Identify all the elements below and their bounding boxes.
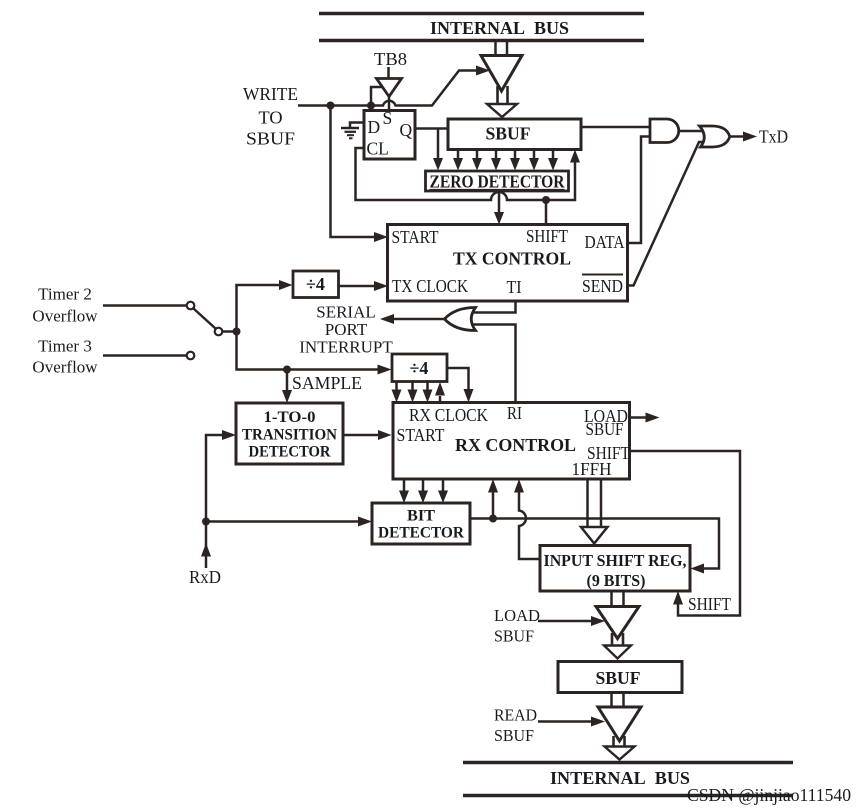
svg-text:TRANSITION: TRANSITION (242, 426, 337, 444)
svg-text:INTERNAL BUS: INTERNAL BUS (430, 18, 569, 38)
svg-text:Timer 2: Timer 2 (38, 285, 92, 304)
svg-text:CSDN @jinjiao111540: CSDN @jinjiao111540 (687, 785, 851, 805)
svg-text:1-TO-0: 1-TO-0 (264, 408, 316, 426)
svg-text:START: START (397, 425, 445, 445)
svg-text:START: START (392, 227, 439, 247)
svg-text:SBUF: SBUF (246, 129, 295, 149)
svg-text:TI: TI (507, 277, 522, 297)
svg-text:(9 BITS): (9 BITS) (587, 571, 646, 590)
svg-text:SBUF: SBUF (494, 726, 534, 745)
svg-text:RxD: RxD (189, 567, 221, 587)
svg-text:SHIFT: SHIFT (688, 594, 731, 614)
svg-text:÷4: ÷4 (410, 358, 429, 378)
svg-text:PORT: PORT (325, 320, 368, 339)
svg-text:SBUF: SBUF (486, 124, 531, 144)
svg-text:SHIFT: SHIFT (526, 226, 568, 246)
svg-text:DATA: DATA (585, 232, 625, 252)
svg-text:SBUF: SBUF (494, 627, 534, 646)
svg-text:Overflow: Overflow (32, 358, 98, 377)
svg-text:RX CONTROL: RX CONTROL (455, 435, 576, 455)
svg-text:LOAD: LOAD (494, 606, 540, 625)
svg-text:Timer 3: Timer 3 (38, 337, 92, 356)
svg-text:ZERO DETECTOR: ZERO DETECTOR (430, 172, 565, 192)
svg-text:DETECTOR: DETECTOR (249, 443, 331, 461)
svg-text:INPUT SHIFT REG,: INPUT SHIFT REG, (544, 551, 687, 570)
svg-text:SERIAL: SERIAL (316, 303, 376, 322)
svg-text:Q: Q (400, 120, 413, 140)
svg-text:1FFH: 1FFH (572, 459, 612, 479)
svg-text:TX CONTROL: TX CONTROL (453, 249, 571, 269)
svg-text:RI: RI (507, 403, 522, 423)
svg-text:Overflow: Overflow (32, 307, 98, 326)
svg-text:TO: TO (259, 108, 283, 128)
svg-text:READ: READ (494, 706, 537, 725)
svg-text:WRITE: WRITE (243, 84, 298, 104)
svg-text:SEND: SEND (582, 276, 623, 296)
svg-text:INTERNAL BUS: INTERNAL BUS (550, 768, 690, 788)
svg-text:SAMPLE: SAMPLE (292, 373, 362, 393)
svg-text:TB8: TB8 (374, 49, 407, 69)
svg-text:S: S (383, 108, 393, 128)
svg-text:DETECTOR: DETECTOR (378, 524, 464, 542)
svg-text:TX CLOCK: TX CLOCK (392, 276, 468, 296)
svg-text:TxD: TxD (759, 127, 788, 147)
svg-text:÷4: ÷4 (306, 274, 325, 294)
svg-text:RX CLOCK: RX CLOCK (409, 405, 488, 425)
svg-text:D: D (368, 117, 381, 137)
svg-text:INTERRUPT: INTERRUPT (299, 338, 393, 357)
svg-text:SBUF: SBUF (586, 419, 624, 439)
svg-text:BIT: BIT (407, 507, 435, 525)
svg-text:SBUF: SBUF (596, 668, 641, 688)
svg-text:CL: CL (367, 139, 389, 159)
